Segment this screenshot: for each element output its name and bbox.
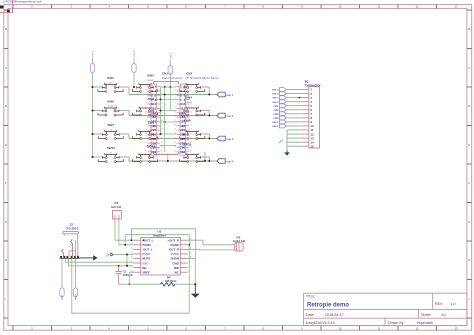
svg-text:one d: one d <box>272 93 279 96</box>
svg-text:SW2: SW2 <box>147 74 154 78</box>
net flag P1 pin5 <box>273 104 286 108</box>
svg-text:21: 21 <box>174 129 176 131</box>
svg-text:B: B <box>5 27 7 31</box>
arrow net (jack common) <box>80 255 98 260</box>
wire bridge outer (+OUT_L to SHDN side) <box>131 229 195 259</box>
svg-text:1.0: 1.0 <box>451 302 456 306</box>
svg-text:one d: one d <box>132 50 136 57</box>
svg-text:SHDN: SHDN <box>171 257 179 261</box>
wire +5V to U1 PVDD <box>113 253 133 256</box>
switch SW11 (c) <box>132 144 157 162</box>
svg-text:right: right <box>108 104 114 108</box>
wire SHDN to R4/ground <box>188 258 196 284</box>
svg-text:15: 15 <box>174 116 176 118</box>
net flag +5V (amp) <box>104 252 113 258</box>
svg-text:PGND: PGND <box>170 243 178 247</box>
svg-text:CN2: CN2 <box>186 72 192 76</box>
connector P4 (left CH) <box>111 201 122 223</box>
net flag P1 pin9 <box>272 120 286 124</box>
svg-text:F: F <box>5 181 7 185</box>
switch SW8 (b) <box>132 121 157 140</box>
net port COL2 (top) <box>132 50 136 72</box>
svg-text:one 4: one 4 <box>272 101 279 104</box>
junction x127/VDD wire <box>126 265 128 267</box>
svg-text:7: 7 <box>146 98 147 100</box>
svg-text:31: 31 <box>174 150 176 152</box>
svg-text:17: 17 <box>145 120 147 122</box>
svg-text:+5V: +5V <box>104 252 111 258</box>
svg-text:13: 13 <box>454 326 458 330</box>
svg-text:11: 11 <box>174 107 176 109</box>
wire jack to U1 VDD / C1 top <box>69 258 134 265</box>
net flag P1 pin1 <box>272 88 286 92</box>
svg-text:x: x <box>186 123 188 127</box>
junction row 4 / column bus <box>91 156 93 158</box>
op-amp U1 (amplifier IC) <box>131 230 192 275</box>
svg-text:VREF: VREF <box>142 270 150 274</box>
svg-text:1-PC5138-retropie-demo.sch: 1-PC5138-retropie-demo.sch <box>3 0 42 3</box>
svg-text:26: 26 <box>189 137 191 139</box>
svg-text:5: 5 <box>175 94 176 96</box>
svg-text:10: 10 <box>338 5 342 9</box>
junction COL3/row1 <box>169 86 171 88</box>
svg-text:C: C <box>5 66 7 70</box>
svg-text:espendah: espendah <box>417 321 433 325</box>
wire inter-connector vertical A <box>160 87 162 134</box>
svg-text:29: 29 <box>145 146 147 148</box>
label CN2 <box>186 72 219 81</box>
svg-text:12: 12 <box>415 326 419 330</box>
svg-text:F: F <box>468 181 470 185</box>
wire U1 -OUT_R to P3 pin2 <box>188 248 233 251</box>
wire jack to bottom loop <box>72 245 189 313</box>
svg-text:a: a <box>110 127 112 131</box>
wire R4 net <box>119 283 196 285</box>
svg-text:ctrl1: ctrl1 <box>273 105 279 108</box>
svg-text:SW12: SW12 <box>107 146 116 150</box>
svg-text:24: 24 <box>189 133 191 135</box>
svg-text:27: 27 <box>174 142 176 144</box>
svg-text:MUTE: MUTE <box>142 257 150 261</box>
junction R4/ground <box>194 283 196 285</box>
switch SW2 (down) <box>132 74 157 93</box>
net flag one1 <box>217 92 234 97</box>
connector P1 <box>301 80 322 148</box>
svg-text:TITLE:: TITLE: <box>306 295 316 299</box>
wire column bus from COL1 port <box>92 73 94 158</box>
switch SW4 (select) <box>180 95 205 116</box>
svg-text:D: D <box>5 104 7 108</box>
svg-text:one 4: one 4 <box>226 159 234 163</box>
svg-text:12: 12 <box>189 107 191 109</box>
switch SW10 (y) <box>180 142 205 162</box>
junction row 1 / column bus <box>91 86 93 88</box>
switch SW6 (right) <box>98 99 123 116</box>
svg-text:14: 14 <box>189 111 191 113</box>
svg-text:6: 6 <box>189 94 190 96</box>
svg-text:Retropie demo: Retropie demo <box>307 303 349 309</box>
svg-text:I: I <box>469 297 470 301</box>
net port COL3 (top) <box>168 52 172 74</box>
svg-text:Drawn By:: Drawn By: <box>388 321 405 325</box>
svg-text:REV:: REV: <box>435 302 443 306</box>
svg-text:16: 16 <box>189 116 191 118</box>
svg-text:up: up <box>109 80 113 84</box>
net flag P1 pin2 <box>272 92 286 96</box>
net flag P1 pin8 <box>273 116 286 120</box>
svg-text:1000uF: 1000uF <box>123 273 133 277</box>
svg-text:one u: one u <box>272 89 279 92</box>
net flag one4 <box>217 159 234 164</box>
wire from COL3 port <box>169 73 171 111</box>
svg-text:2018-04-17: 2018-04-17 <box>325 313 343 317</box>
junction B2 <box>164 94 166 96</box>
svg-text:5: 5 <box>131 257 133 259</box>
resistor R4 (1M Ohm) <box>161 275 177 286</box>
svg-text:29: 29 <box>174 146 176 148</box>
svg-text:H: H <box>5 258 7 262</box>
svg-text:7: 7 <box>131 266 133 268</box>
wire inter-connector vertical B <box>164 87 166 152</box>
net port COL1 (top) <box>90 50 94 72</box>
junction row 4 right jog <box>208 160 210 162</box>
wire bridge inner (PGND loop) <box>125 235 189 245</box>
svg-text:2: 2 <box>189 85 190 87</box>
svg-text:d: d <box>110 150 112 154</box>
svg-text:one 2: one 2 <box>226 114 234 118</box>
switch SW7 (a) <box>98 123 123 140</box>
svg-text:12: 12 <box>415 5 419 9</box>
svg-text:down: down <box>147 78 154 82</box>
svg-text:26: 26 <box>160 137 162 139</box>
svg-text:INR: INR <box>174 266 180 270</box>
svg-text:4: 4 <box>189 90 190 92</box>
junction P1 pin3 <box>299 97 301 99</box>
svg-text:32: 32 <box>160 150 162 152</box>
svg-text:15: 15 <box>310 144 314 148</box>
svg-text:18: 18 <box>189 120 191 122</box>
junction row 3 / column bus <box>91 133 93 135</box>
svg-text:+OUT_R: +OUT_R <box>167 238 179 242</box>
svg-text:28: 28 <box>189 142 191 144</box>
switch SW1 (up) <box>98 76 123 93</box>
svg-text:+OUT_L: +OUT_L <box>142 238 153 242</box>
svg-text:9: 9 <box>146 103 147 105</box>
svg-text:22: 22 <box>189 129 191 131</box>
svg-text:G: G <box>468 220 470 224</box>
net flag P1 pin3 <box>272 96 286 100</box>
svg-text:SW7: SW7 <box>107 123 114 127</box>
wire P4 pin1 to U1 +OUT_L <box>115 223 133 240</box>
svg-text:3: 3 <box>146 90 147 92</box>
connector CN1 (hand connector 1) <box>145 84 163 155</box>
svg-text:19: 19 <box>145 124 147 126</box>
svg-text:INL: INL <box>142 266 147 270</box>
svg-text:G: G <box>5 220 7 224</box>
svg-text:15: 15 <box>145 116 147 118</box>
svg-text:10: 10 <box>189 103 191 105</box>
net flag one3 <box>217 136 234 141</box>
junction A5 <box>160 133 162 135</box>
svg-text:-OUT_R: -OUT_R <box>168 248 180 252</box>
svg-text:amplifier: amplifier <box>153 233 167 237</box>
svg-text:SW1: SW1 <box>107 76 114 80</box>
svg-text:28: 28 <box>160 142 162 144</box>
svg-text:30: 30 <box>160 146 162 148</box>
svg-text:one 1: one 1 <box>272 121 279 124</box>
svg-text:30: 30 <box>189 146 191 148</box>
junction row 1 right jog <box>208 94 210 96</box>
wire from COL2 port <box>133 73 135 88</box>
svg-text:Sheet:: Sheet: <box>421 313 431 317</box>
junction C1 top <box>118 265 120 267</box>
junction bridge outer / +OUT_L <box>130 239 132 241</box>
svg-text:EasyEDA V5.3.14: EasyEDA V5.3.14 <box>306 321 335 325</box>
junction A2 <box>164 86 166 88</box>
svg-text:one s: one s <box>272 97 279 100</box>
svg-text:32: 32 <box>189 150 191 152</box>
svg-text:13: 13 <box>454 5 458 9</box>
switch SW3 (left) <box>132 97 157 116</box>
svg-text:one 2: one 2 <box>272 125 279 128</box>
svg-text:one u: one u <box>92 50 95 57</box>
svg-text:C: C <box>468 66 470 70</box>
svg-text:one s: one s <box>170 52 173 59</box>
svg-text:GND: GND <box>172 261 178 265</box>
svg-text:SW6: SW6 <box>107 99 114 103</box>
junction COL2/row1 <box>133 86 135 88</box>
wire P4 pin2 to U1 PGND <box>119 223 133 245</box>
svg-text:32: 32 <box>182 150 186 154</box>
svg-text:one 1: one 1 <box>226 93 234 97</box>
jack pin bar <box>60 257 80 259</box>
junction B1 <box>167 160 169 162</box>
svg-text:25: 25 <box>174 137 176 139</box>
svg-text:B: B <box>468 27 470 31</box>
net flag P1 pin10 <box>272 124 286 128</box>
svg-text:PJ-307C: PJ-307C <box>67 226 80 230</box>
connector rail top <box>154 81 179 84</box>
svg-text:NC: NC <box>175 270 180 274</box>
svg-text:3: 3 <box>131 248 133 250</box>
svg-text:13: 13 <box>174 111 176 113</box>
svg-text:(2*7P pitch2.54mm Bend): (2*7P pitch2.54mm Bend) <box>186 76 219 80</box>
svg-text:left CH: left CH <box>111 205 122 209</box>
net port R (bottom) <box>73 288 77 300</box>
svg-text:-OUT_L: -OUT_L <box>142 248 153 252</box>
wire jack to net port L <box>61 258 63 288</box>
wire row 2 <box>93 111 217 116</box>
svg-text:left: left <box>61 295 64 299</box>
switch SW5 (start) <box>180 83 205 92</box>
svg-text:PVDD: PVDD <box>142 252 150 256</box>
svg-text:ctrl4: ctrl4 <box>273 117 279 120</box>
svg-text:ctrl3: ctrl3 <box>273 113 279 116</box>
svg-text:E: E <box>468 143 470 147</box>
svg-text:ctrl2: ctrl2 <box>273 109 279 112</box>
junction loop / U1 PGND right <box>188 244 190 246</box>
svg-text:one 3: one 3 <box>226 137 234 141</box>
junction row 2 right jog <box>208 115 210 117</box>
svg-text:D: D <box>468 104 470 108</box>
svg-text:11: 11 <box>378 326 381 330</box>
svg-text:3: 3 <box>175 90 176 92</box>
net port L (bottom) <box>60 288 64 300</box>
net flag P1 pin4 <box>272 100 286 104</box>
wire row 1 <box>93 87 217 95</box>
junction row 3 right jog <box>208 138 210 140</box>
svg-text:PGND: PGND <box>142 243 150 247</box>
wire CN2 right drop <box>204 152 206 161</box>
connector P3 (right CH) <box>233 236 246 252</box>
svg-text:19: 19 <box>174 124 176 126</box>
wire row 3 <box>93 134 217 139</box>
svg-text:13: 13 <box>145 111 147 113</box>
svg-text:10: 10 <box>338 326 342 330</box>
svg-text:Hand connector: Hand connector <box>162 76 182 80</box>
switch SW12 (d) <box>98 146 123 163</box>
net flag P1 pin6 <box>273 108 286 112</box>
svg-text:PVDD: PVDD <box>171 252 179 256</box>
svg-text:1/1: 1/1 <box>441 313 446 317</box>
svg-text:23: 23 <box>145 133 147 135</box>
svg-text:20: 20 <box>189 124 191 126</box>
ground P1 <box>284 150 290 155</box>
svg-text:Date:: Date: <box>306 313 315 317</box>
title block <box>304 293 467 325</box>
wire row 4 <box>93 157 217 161</box>
net flag +5V (P1 pin13) <box>278 138 285 144</box>
svg-text:H: H <box>468 258 470 262</box>
junction bridge inner / PGND <box>124 244 126 246</box>
svg-text:25: 25 <box>145 137 147 139</box>
wire x127 vertical <box>126 255 128 266</box>
P1 pin wires 1-10 <box>286 90 301 126</box>
wire U1 PGND right stub <box>188 244 189 246</box>
P1 ground bus wires pins 11-15 <box>287 130 301 150</box>
jack J2 (PJ-307C) <box>60 222 79 258</box>
net flag P1 pin7 <box>273 112 286 116</box>
svg-text:5: 5 <box>146 94 147 96</box>
junction A3 <box>160 98 162 100</box>
svg-text:VDD: VDD <box>142 261 148 265</box>
wire VREF down <box>129 272 133 284</box>
connector CN2 (hand connector 2) <box>174 84 192 155</box>
svg-text:21: 21 <box>145 129 147 131</box>
wire jack to net port R <box>75 258 77 288</box>
junction CN2 drop / row4 flag line <box>204 160 206 162</box>
junction A1 <box>160 110 162 112</box>
svg-text:CN1: CN1 <box>162 72 168 76</box>
connector rail bottom <box>154 152 179 154</box>
svg-text:8: 8 <box>189 98 190 100</box>
svg-text:1: 1 <box>146 85 147 87</box>
svg-text:I: I <box>6 297 7 301</box>
junction row 2 / column bus <box>91 109 93 111</box>
junction +5V/x127 <box>126 254 128 256</box>
sheet file name text <box>3 0 42 3</box>
label CN1 <box>162 72 182 81</box>
switch SW9 (x) <box>180 119 205 140</box>
junction VREF/R4 line <box>128 283 130 285</box>
ground (amp) <box>191 284 200 298</box>
svg-text:31: 31 <box>145 150 147 152</box>
capacitor C1 (1000uF) <box>115 266 132 284</box>
wire U1 +OUT_R to P3 pin1 <box>188 240 233 245</box>
wire jack to U1 MUTE <box>65 258 133 262</box>
wire CN bottom drop <box>167 154 169 161</box>
svg-text:+5V: +5V <box>278 138 285 144</box>
svg-text:11: 11 <box>378 5 381 9</box>
wire CN1-CN2 interlinks <box>160 87 177 145</box>
svg-text:27: 27 <box>145 142 147 144</box>
svg-text:11: 11 <box>145 107 147 109</box>
junction A4 <box>164 121 166 123</box>
svg-text:E: E <box>5 143 7 147</box>
net flag one2 <box>217 113 234 118</box>
svg-text:right: right <box>75 293 78 298</box>
svg-text:9: 9 <box>175 103 176 105</box>
